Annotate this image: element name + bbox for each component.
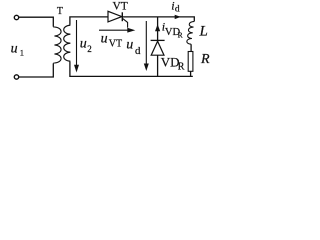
svg-text:T: T <box>57 6 63 17</box>
svg-text:R: R <box>178 62 185 73</box>
svg-text:VD: VD <box>161 54 180 69</box>
svg-text:VT: VT <box>113 0 128 12</box>
svg-text:u: u <box>11 41 18 56</box>
svg-text:u: u <box>126 38 133 53</box>
svg-text:R: R <box>200 52 210 67</box>
svg-text:u: u <box>101 32 108 47</box>
svg-text:1: 1 <box>20 47 24 57</box>
svg-text:u: u <box>80 37 87 52</box>
svg-text:d: d <box>175 5 180 15</box>
svg-text:L: L <box>199 24 208 40</box>
svg-text:R: R <box>178 30 183 39</box>
svg-text:2: 2 <box>87 44 92 54</box>
svg-text:d: d <box>135 45 141 57</box>
svg-text:VT: VT <box>109 38 122 49</box>
